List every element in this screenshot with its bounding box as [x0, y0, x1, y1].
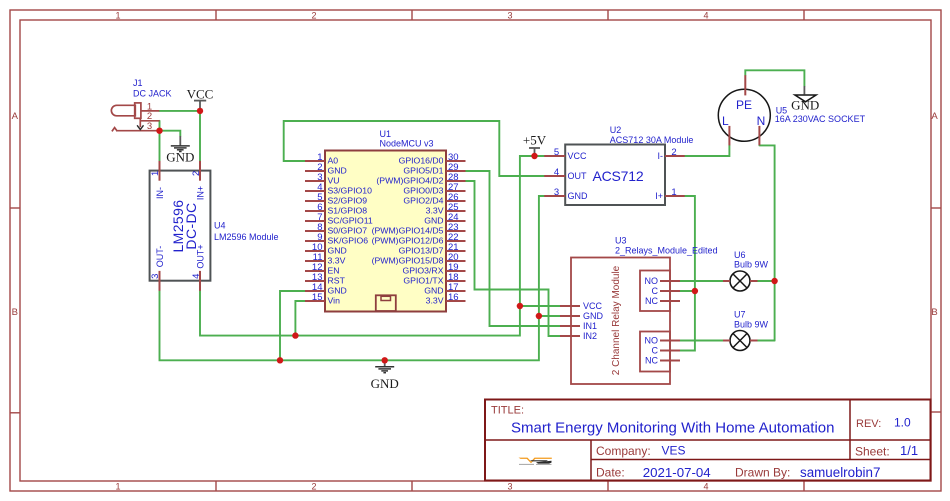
pin 12 EN	[305, 270, 325, 272]
pin 13 RST	[305, 280, 325, 282]
wire U4 OUT+ to +5V rail	[200, 156, 544, 336]
wire relay NO2 to bulb U7	[680, 340, 723, 342]
wire bulb U6 to N rail	[758, 280, 775, 282]
wire GND rail to relay GND	[539, 315, 560, 317]
svg-text:OUT-: OUT-	[155, 246, 165, 268]
svg-text:Vin: Vin	[328, 295, 341, 305]
svg-text:GND: GND	[166, 150, 194, 165]
svg-text:GND: GND	[328, 165, 347, 175]
svg-text:GPIO5/D1: GPIO5/D1	[403, 165, 443, 175]
pin 2	[141, 120, 160, 122]
svg-text:N: N	[757, 114, 766, 128]
pin 20 (PWM)GPIO15/D8	[446, 260, 466, 262]
svg-text:2: 2	[311, 482, 316, 492]
svg-text:samuelrobin7: samuelrobin7	[800, 465, 880, 480]
svg-text:16: 16	[448, 292, 459, 303]
svg-text:3: 3	[147, 121, 152, 132]
pin 27 GPIO0/D3	[446, 190, 466, 192]
svg-text:I+: I+	[655, 191, 663, 201]
svg-text:3.3V: 3.3V	[426, 295, 444, 305]
wire VCC node down to U4 IN+	[199, 111, 201, 161]
svg-text:3: 3	[554, 187, 559, 198]
svg-text:Bulb 9W: Bulb 9W	[734, 320, 769, 330]
svg-text:3.3V: 3.3V	[328, 255, 346, 265]
svg-text:U4: U4	[214, 221, 226, 231]
wire ACS I+ down to relay C2	[680, 196, 695, 351]
svg-text:S2/GPIO9: S2/GPIO9	[328, 195, 368, 205]
svg-text:ACS712 30A Module: ACS712 30A Module	[610, 135, 694, 145]
svg-text:U3: U3	[615, 236, 627, 246]
socket U5 16A 230VAC	[718, 75, 865, 145]
svg-text:NC: NC	[645, 356, 658, 366]
svg-text:GND: GND	[568, 191, 589, 201]
pin 5 VCC	[544, 155, 565, 157]
svg-text:GND: GND	[424, 285, 443, 295]
svg-text:4: 4	[703, 11, 708, 21]
wire bulb U7 to N rail	[758, 340, 775, 342]
pin 19 GPIO3/RX	[446, 270, 466, 272]
svg-text:IN1: IN1	[583, 321, 597, 331]
pin 21 GPIO13/D7	[446, 250, 466, 252]
svg-text:Drawn By:: Drawn By:	[735, 466, 790, 480]
svg-text:U6: U6	[734, 250, 746, 260]
svg-text:GPIO13/D7: GPIO13/D7	[399, 245, 444, 255]
pin NO1	[660, 280, 680, 282]
svg-text:2_Relays_Module_Edited: 2_Relays_Module_Edited	[615, 246, 718, 256]
svg-text:NO: NO	[645, 276, 659, 286]
pin VCC	[560, 305, 580, 307]
svg-text:NO: NO	[645, 336, 659, 346]
wire node to GND stub	[160, 131, 181, 136]
svg-text:SK/GPIO6: SK/GPIO6	[328, 235, 369, 245]
pin PE	[744, 75, 746, 95]
pin 3 GND	[544, 195, 565, 197]
svg-text:2021-07-04: 2021-07-04	[643, 465, 711, 480]
pin 4 OUT	[544, 175, 565, 177]
pin 1 A0	[305, 160, 325, 162]
pin 3 OUT-	[159, 271, 161, 291]
pin 11 3.3V	[305, 260, 325, 262]
title block	[485, 400, 931, 481]
svg-text:2: 2	[311, 11, 316, 21]
pin IN2	[560, 335, 580, 337]
svg-text:2 Channel Relay Module: 2 Channel Relay Module	[611, 265, 622, 375]
pin 18 GPIO1/TX	[446, 280, 466, 282]
svg-text:4: 4	[554, 167, 559, 178]
pin NO2	[660, 340, 680, 342]
svg-text:I-: I-	[658, 151, 664, 161]
svg-text:A0: A0	[328, 155, 339, 165]
svg-text:L: L	[722, 114, 729, 128]
svg-text:(PWM)GPIO14/D5: (PWM)GPIO14/D5	[372, 225, 444, 235]
connector J1 DC JACK	[111, 78, 171, 132]
wire socket PE to earth	[745, 70, 804, 86]
power earth GND (socket)	[791, 86, 819, 113]
svg-text:IN+: IN+	[195, 186, 205, 200]
svg-text:GND: GND	[328, 245, 347, 255]
svg-text:REV:: REV:	[856, 418, 881, 430]
pin C2	[660, 350, 680, 352]
node C1	[692, 288, 698, 294]
microcontroller U1 NodeMCU v3	[305, 129, 466, 312]
svg-text:GND: GND	[328, 285, 347, 295]
pin 7 SC/GPIO11	[305, 220, 325, 222]
pin 24 GND	[446, 220, 466, 222]
node jack gnd	[156, 128, 162, 134]
sensor U2 ACS712 30A Module	[544, 125, 693, 205]
svg-text:S1/GPIO8: S1/GPIO8	[328, 205, 368, 215]
svg-text:1: 1	[671, 187, 676, 198]
svg-text:(PWM)GPIO15/D8: (PWM)GPIO15/D8	[372, 255, 444, 265]
svg-text:(PWM)GPIO4/D2: (PWM)GPIO4/D2	[376, 175, 443, 185]
svg-text:ACS712: ACS712	[593, 168, 644, 184]
svg-text:J1: J1	[133, 78, 143, 88]
node Vin tap	[292, 332, 298, 338]
relay 1 contact box	[640, 271, 670, 312]
svg-text:Date:: Date:	[596, 466, 625, 480]
pin 29 GPIO5/D1	[446, 170, 466, 172]
pin 16 3.3V	[446, 300, 466, 302]
node N bulb1	[771, 278, 777, 284]
lamp U6 Bulb 9W	[723, 250, 769, 291]
svg-text:1: 1	[150, 171, 161, 176]
svg-text:C: C	[652, 286, 659, 296]
pin GND	[560, 315, 580, 317]
pin 3	[117, 130, 159, 132]
svg-text:IN-: IN-	[155, 187, 165, 199]
svg-text:GPIO0/D3: GPIO0/D3	[403, 185, 443, 195]
node gnd14	[277, 357, 283, 363]
wire relay NO1 to bulb U6	[680, 280, 723, 282]
wire U1 Vin drop	[295, 301, 305, 336]
node relay VCC	[517, 303, 523, 309]
svg-text:15: 15	[312, 292, 323, 303]
pin NC2	[660, 360, 680, 362]
pin 3 VU	[305, 180, 325, 182]
wire U1 D2 to relay IN2	[466, 181, 561, 336]
wire node down to U4 IN-	[159, 131, 161, 161]
wire +5V rail to relay VCC	[520, 305, 560, 307]
svg-text:A: A	[931, 111, 938, 122]
relay 2 contact box	[640, 332, 670, 372]
svg-text:TITLE:: TITLE:	[491, 404, 524, 416]
power +5V	[523, 133, 547, 157]
pin 2 IN+	[199, 161, 201, 181]
svg-text:Sheet:: Sheet:	[855, 444, 890, 458]
svg-text:GPIO1/TX: GPIO1/TX	[403, 275, 443, 285]
pin 17 GND	[446, 290, 466, 292]
pin L	[728, 126, 730, 145]
pin 1	[723, 280, 730, 282]
pin 2	[750, 280, 758, 282]
svg-text:EN: EN	[328, 265, 340, 275]
svg-text:+5V: +5V	[523, 133, 547, 148]
svg-text:GPIO3/RX: GPIO3/RX	[402, 265, 443, 275]
pin 30 GPIO16/D0	[446, 160, 466, 162]
svg-text:5: 5	[554, 147, 559, 158]
svg-text:GPIO2/D4: GPIO2/D4	[403, 195, 443, 205]
svg-text:GPIO16/D0: GPIO16/D0	[399, 155, 444, 165]
svg-text:Bulb 9W: Bulb 9W	[734, 260, 769, 270]
svg-text:4: 4	[191, 274, 202, 279]
svg-text:3: 3	[507, 482, 512, 492]
svg-text:B: B	[931, 307, 937, 318]
pin 23 (PWM)GPIO14/D5	[446, 230, 466, 232]
svg-text:3: 3	[150, 274, 161, 279]
svg-text:C: C	[652, 346, 659, 356]
wire relay C1 to I+ rail	[680, 290, 695, 292]
wire ACS I- to socket L	[685, 145, 730, 156]
pin C1	[660, 290, 680, 292]
svg-text:VES: VES	[662, 444, 686, 458]
svg-text:VCC: VCC	[583, 301, 603, 311]
pin 5 S2/GPIO9	[305, 200, 325, 202]
pin 9 SK/GPIO6	[305, 240, 325, 242]
svg-text:IN2: IN2	[583, 331, 597, 341]
svg-text:PE: PE	[736, 98, 752, 112]
svg-text:SC/GPIO11: SC/GPIO11	[328, 215, 373, 225]
pin 14 GND	[305, 290, 325, 292]
pin 1	[141, 110, 159, 112]
pin 28 (PWM)GPIO4/D2	[446, 180, 466, 182]
svg-text:U2: U2	[610, 125, 622, 135]
svg-text:Smart Energy Monitoring With H: Smart Energy Monitoring With Home Automa…	[511, 420, 834, 437]
wire U4 OUT- to GND rail	[160, 196, 545, 360]
svg-text:RST: RST	[328, 275, 346, 285]
svg-text:DC JACK: DC JACK	[133, 89, 172, 99]
svg-text:1: 1	[115, 11, 120, 21]
wire jack pin2 drop to node	[159, 121, 161, 131]
U1 usb notch	[376, 295, 396, 311]
pin 2 I-	[665, 155, 685, 157]
svg-text:VU: VU	[328, 175, 340, 185]
node gnd symbol	[382, 357, 388, 363]
pin 15 Vin	[305, 300, 325, 302]
pin IN1	[560, 325, 580, 327]
svg-text:NC: NC	[645, 296, 658, 306]
svg-text:VCC: VCC	[187, 87, 214, 102]
pin 1	[723, 340, 730, 342]
svg-text:GND: GND	[791, 98, 819, 113]
regulator U4 LM2596 module	[150, 161, 279, 291]
svg-text:Company:: Company:	[596, 444, 651, 458]
pin N	[758, 126, 760, 145]
svg-text:1.0: 1.0	[894, 416, 911, 430]
svg-text:DC-DC: DC-DC	[183, 202, 199, 249]
company logo VES	[519, 458, 552, 465]
pin 4 S3/GPIO10	[305, 190, 325, 192]
power GND (left)	[166, 136, 194, 165]
svg-text:1/1: 1/1	[900, 443, 918, 458]
svg-text:GND: GND	[583, 311, 604, 321]
svg-text:1: 1	[115, 482, 120, 492]
svg-text:3.3V: 3.3V	[426, 205, 444, 215]
pin 2	[750, 340, 758, 342]
node VCC	[197, 108, 203, 114]
svg-text:16A 230VAC SOCKET: 16A 230VAC SOCKET	[775, 114, 866, 124]
pin 6 S1/GPIO8	[305, 210, 325, 212]
lamp U7 Bulb 9W	[723, 310, 769, 351]
svg-text:3: 3	[507, 11, 512, 21]
node +5V	[531, 153, 537, 159]
wire U1 D1 to relay IN1	[466, 171, 561, 326]
svg-text:S0/GPIO7: S0/GPIO7	[328, 225, 368, 235]
pin 8 S0/GPIO7	[305, 230, 325, 232]
svg-text:2: 2	[191, 171, 202, 176]
svg-text:A: A	[12, 111, 19, 122]
pin 22 (PWM)GPIO12/D6	[446, 240, 466, 242]
wire jack pin1 to VCC node	[159, 110, 200, 112]
svg-text:B: B	[12, 307, 18, 318]
svg-text:U7: U7	[734, 310, 746, 320]
svg-text:VCC: VCC	[568, 151, 588, 161]
power GND (bottom)	[371, 360, 399, 391]
pin 25 3.3V	[446, 210, 466, 212]
pin 26 GPIO2/D4	[446, 200, 466, 202]
pin 4 OUT+	[199, 271, 201, 291]
pin 1 IN-	[159, 161, 161, 181]
svg-text:GND: GND	[371, 376, 399, 391]
svg-text:S3/GPIO10: S3/GPIO10	[328, 185, 373, 195]
wire U1 A0 to ACS OUT	[284, 121, 545, 176]
node relay GND	[536, 313, 542, 319]
svg-text:OUT: OUT	[568, 171, 588, 181]
pin 10 GND	[305, 250, 325, 252]
wire socket N rail down	[759, 145, 774, 340]
svg-text:2: 2	[671, 147, 676, 158]
svg-text:GND: GND	[424, 215, 443, 225]
power VCC	[187, 87, 214, 111]
pin NC1	[660, 300, 680, 302]
svg-text:(PWM)GPIO12/D6: (PWM)GPIO12/D6	[372, 235, 444, 245]
relay module U3	[560, 236, 718, 385]
pin 2 GND	[305, 170, 325, 172]
svg-text:LM2596 Module: LM2596 Module	[214, 232, 279, 242]
pin 1 I+	[665, 195, 685, 197]
svg-text:U1: U1	[380, 129, 392, 139]
wire U1 GND pin14 drop	[280, 291, 305, 360]
svg-text:NodeMCU v3: NodeMCU v3	[380, 139, 434, 149]
svg-text:4: 4	[703, 482, 708, 492]
